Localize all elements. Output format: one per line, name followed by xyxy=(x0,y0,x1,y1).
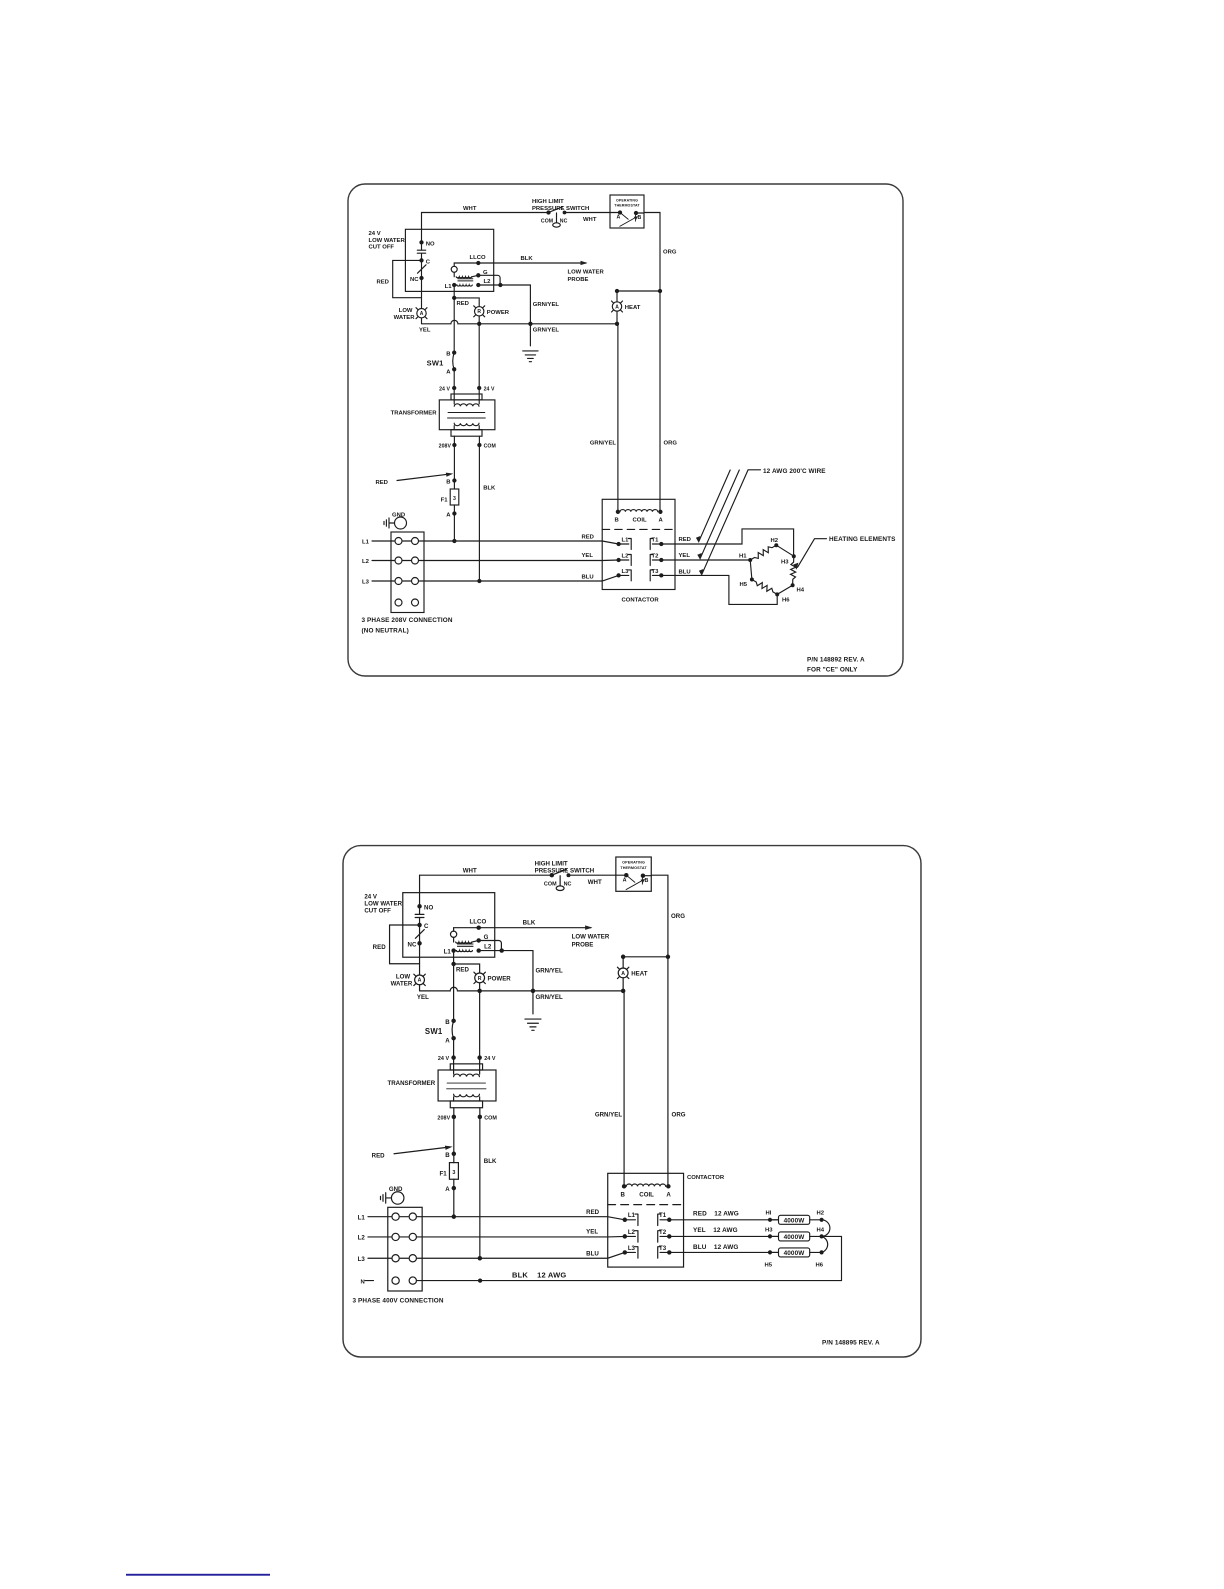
svg-text:GND: GND xyxy=(392,513,405,519)
svg-text:WHT: WHT xyxy=(583,217,597,223)
svg-text:HIGH LIMIT: HIGH LIMIT xyxy=(532,199,564,205)
svg-text:L3: L3 xyxy=(362,580,370,586)
svg-text:ORG: ORG xyxy=(664,441,678,447)
svg-text:B: B xyxy=(446,480,450,486)
svg-text:A: A xyxy=(659,518,664,524)
svg-text:L2: L2 xyxy=(622,554,630,560)
svg-text:H4: H4 xyxy=(817,1228,825,1234)
svg-text:4000W: 4000W xyxy=(784,1250,806,1257)
svg-text:C: C xyxy=(426,260,431,266)
svg-text:HEAT: HEAT xyxy=(625,305,641,311)
svg-text:CONTACTOR: CONTACTOR xyxy=(622,598,660,604)
svg-text:24 V: 24 V xyxy=(484,386,495,392)
svg-text:HI: HI xyxy=(766,1211,772,1217)
svg-text:RED: RED xyxy=(679,537,691,543)
svg-text:4000W: 4000W xyxy=(784,1234,806,1241)
svg-text:H5: H5 xyxy=(765,1263,773,1269)
svg-text:LOW WATER: LOW WATER xyxy=(369,238,406,244)
svg-text:BLK 12 AWG: BLK 12 AWG xyxy=(512,1271,566,1280)
svg-text:LLCO: LLCO xyxy=(470,255,486,261)
svg-text:ORG: ORG xyxy=(663,250,677,256)
svg-text:L2: L2 xyxy=(362,559,370,565)
svg-text:H6: H6 xyxy=(782,598,790,604)
svg-text:GRN/YEL: GRN/YEL xyxy=(590,441,617,447)
svg-text:H2: H2 xyxy=(817,1211,825,1217)
svg-text:YEL 12 AWG: YEL 12 AWG xyxy=(693,1227,738,1234)
svg-text:COM: COM xyxy=(484,444,496,450)
svg-text:P/N 148892 REV. A: P/N 148892 REV. A xyxy=(807,657,865,664)
svg-text:PRESSURE SWITCH: PRESSURE SWITCH xyxy=(532,206,589,212)
svg-text:H4: H4 xyxy=(797,588,805,594)
svg-text:RED: RED xyxy=(376,480,388,486)
svg-text:B: B xyxy=(446,352,450,358)
svg-text:T1: T1 xyxy=(652,538,660,544)
svg-text:LOW: LOW xyxy=(399,308,413,314)
svg-text:WHT: WHT xyxy=(463,206,477,212)
svg-text:NC: NC xyxy=(410,277,419,283)
svg-text:L3: L3 xyxy=(622,569,630,575)
svg-text:H3: H3 xyxy=(765,1228,773,1234)
svg-text:24 V: 24 V xyxy=(369,231,381,237)
svg-text:A: A xyxy=(446,370,451,376)
svg-text:WATER: WATER xyxy=(394,315,416,321)
svg-text:LOW WATER: LOW WATER xyxy=(568,270,605,276)
svg-text:A: A xyxy=(615,304,619,310)
svg-text:T3: T3 xyxy=(652,569,660,575)
svg-text:YEL: YEL xyxy=(679,553,691,559)
svg-text:BLK: BLK xyxy=(521,256,534,262)
svg-text:F1: F1 xyxy=(441,498,449,504)
svg-text:L1: L1 xyxy=(362,540,370,546)
svg-text:FOR "CE" ONLY: FOR "CE" ONLY xyxy=(807,667,858,674)
svg-text:H3: H3 xyxy=(781,560,789,566)
svg-text:OPERATING: OPERATING xyxy=(616,199,638,203)
svg-text:PROBE: PROBE xyxy=(568,277,589,283)
svg-text:L1: L1 xyxy=(622,538,630,544)
svg-text:R: R xyxy=(477,309,481,315)
svg-text:12 AWG 200'C WIRE: 12 AWG 200'C WIRE xyxy=(763,468,826,475)
svg-text:A: A xyxy=(420,311,424,317)
svg-text:BLU: BLU xyxy=(582,575,594,581)
svg-text:B: B xyxy=(638,215,642,221)
svg-text:(NO NEUTRAL): (NO NEUTRAL) xyxy=(362,628,409,635)
svg-text:COIL: COIL xyxy=(633,518,647,524)
svg-text:B: B xyxy=(615,518,619,524)
svg-text:YEL: YEL xyxy=(419,328,431,334)
svg-text:BLU: BLU xyxy=(679,570,691,576)
svg-text:YEL: YEL xyxy=(582,553,594,559)
svg-text:NO: NO xyxy=(426,242,435,248)
svg-text:A: A xyxy=(617,215,621,221)
svg-text:BLU 12 AWG: BLU 12 AWG xyxy=(693,1244,738,1251)
svg-text:SW1: SW1 xyxy=(427,359,444,368)
svg-text:4000W: 4000W xyxy=(784,1217,806,1224)
svg-text:H6: H6 xyxy=(816,1263,824,1269)
svg-text:H5: H5 xyxy=(739,582,747,588)
svg-text:P/N 148895 REV. A: P/N 148895 REV. A xyxy=(822,1340,880,1347)
svg-text:N: N xyxy=(361,1280,365,1286)
svg-text:L1: L1 xyxy=(445,284,453,290)
svg-text:3: 3 xyxy=(453,496,456,502)
svg-text:A: A xyxy=(446,513,451,519)
svg-text:3 PHASE 400V CONNECTION: 3 PHASE 400V CONNECTION xyxy=(353,1298,444,1305)
svg-text:208V: 208V xyxy=(439,444,452,450)
svg-text:RED 12 AWG: RED 12 AWG xyxy=(693,1210,739,1217)
svg-text:RED: RED xyxy=(582,535,594,541)
svg-text:24 V: 24 V xyxy=(439,386,450,392)
svg-text:H1: H1 xyxy=(739,554,747,560)
svg-text:BLK: BLK xyxy=(483,486,496,492)
svg-text:THERMOSTAT: THERMOSTAT xyxy=(614,204,640,208)
svg-text:POWER: POWER xyxy=(487,310,510,316)
svg-text:H2: H2 xyxy=(771,538,779,544)
svg-text:TRANSFORMER: TRANSFORMER xyxy=(391,411,438,417)
svg-text:3 PHASE 208V CONNECTION: 3 PHASE 208V CONNECTION xyxy=(362,617,453,624)
svg-text:L2: L2 xyxy=(484,279,492,285)
svg-text:HEATING ELEMENTS: HEATING ELEMENTS xyxy=(829,536,896,543)
svg-text:NC: NC xyxy=(560,219,568,225)
svg-text:GRN/YEL: GRN/YEL xyxy=(533,328,560,334)
svg-text:CUT OFF: CUT OFF xyxy=(369,245,395,251)
svg-text:CONTACTOR: CONTACTOR xyxy=(687,1175,725,1181)
svg-text:G: G xyxy=(483,270,488,276)
svg-text:GRN/YEL: GRN/YEL xyxy=(533,302,560,308)
svg-text:RED: RED xyxy=(377,280,389,286)
svg-text:COM: COM xyxy=(541,219,553,225)
svg-text:T2: T2 xyxy=(652,554,660,560)
svg-text:RED: RED xyxy=(457,301,469,307)
